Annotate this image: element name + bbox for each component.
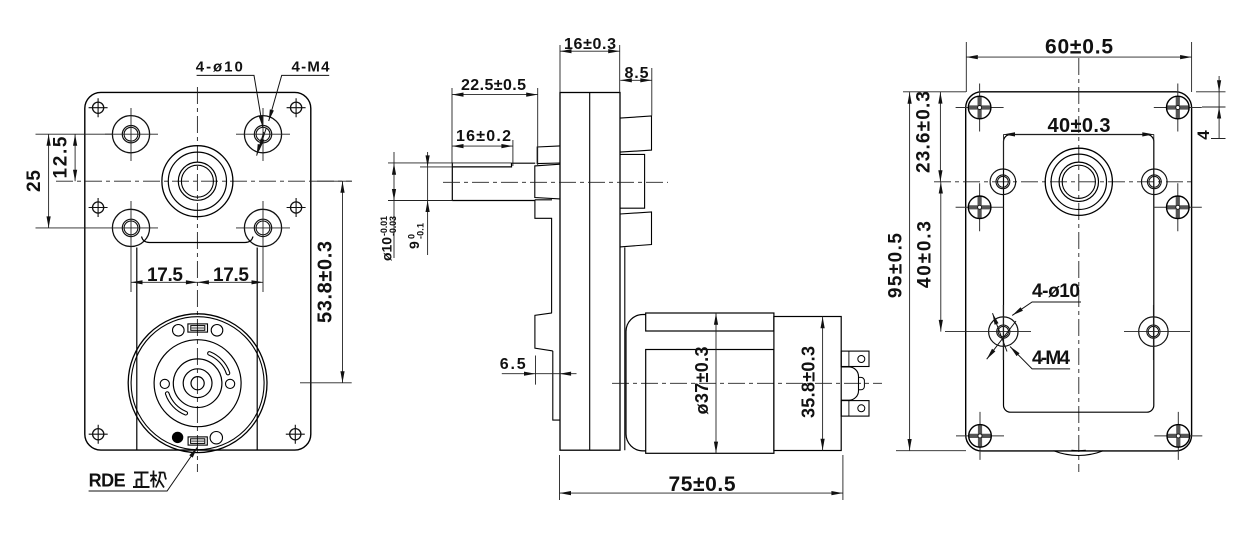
motor centerline (612, 382, 882, 384)
rear cover line (624, 247, 626, 450)
motor silhouette arcs below plate (1054, 451, 1104, 456)
svg-text:16±0.2: 16±0.2 (456, 128, 511, 145)
mid hole left (89, 198, 108, 217)
dim 60 extension lines (966, 42, 1191, 92)
svg-text:12.5: 12.5 (51, 136, 72, 178)
dim 23.6 line (939, 92, 941, 182)
dim 75 extension lines (560, 455, 843, 500)
front cover strip lower (553, 351, 560, 420)
motor rear section (774, 317, 841, 451)
svg-text:40±0.3: 40±0.3 (1048, 115, 1111, 137)
screw top-left (956, 84, 1004, 132)
vertical centerline (1078, 58, 1080, 472)
center output hub circles (162, 146, 233, 217)
vertical centerline (196, 87, 198, 472)
brush knob (859, 377, 865, 389)
dim 22.5 extension lines (452, 88, 538, 165)
motor arc slot top-right (209, 353, 228, 373)
dim 12.5 line (74, 134, 76, 181)
side hole right (1142, 169, 1168, 195)
front boss lower piece (535, 200, 552, 219)
rear boss piece B (620, 154, 645, 208)
corner hole bottom-right (286, 425, 305, 444)
screw bottom-right (1154, 412, 1202, 460)
dim 17.5 line (131, 281, 263, 283)
front shaft boss (535, 164, 560, 199)
dim o37 line (715, 313, 717, 453)
svg-text:9: 9 (406, 241, 422, 249)
dim 9 line (427, 152, 429, 255)
horizontal centerline (934, 181, 1192, 183)
inner housing rounded rect (1004, 135, 1154, 413)
center hub circles (1045, 148, 1112, 215)
motor can top band (646, 313, 774, 331)
svg-text:23.6±0.3: 23.6±0.3 (914, 91, 935, 173)
svg-text:-0.1: -0.1 (416, 223, 426, 239)
svg-text:4-M4: 4-M4 (1032, 348, 1070, 369)
svg-text:17.5: 17.5 (147, 265, 183, 286)
dim 40 left line (940, 182, 942, 332)
front mounting tab (535, 313, 553, 351)
dim 4 extension lines (1196, 92, 1226, 107)
front cover strip upper (551, 218, 553, 313)
front boss upper piece (537, 146, 560, 164)
dim 9 extension line (420, 166, 452, 168)
screw mid-right (1154, 183, 1202, 231)
motor bottom screw circle (210, 432, 222, 444)
motor vent hole right (226, 379, 235, 388)
dim 8.5 line (620, 79, 652, 81)
svg-text:RDE: RDE (89, 471, 126, 491)
motor front flange (626, 315, 646, 451)
lower hole right (1139, 317, 1168, 346)
svg-text:-0.03: -0.03 (388, 216, 398, 236)
big hole lower-right (244, 209, 281, 246)
dim 75 line (560, 492, 843, 494)
dim 16+-0.3 extension lines (560, 45, 620, 93)
dim 4 line outside arrows (1211, 76, 1226, 139)
svg-text:ø10: ø10 (379, 237, 395, 261)
dim 6.5 line with outside arrows (502, 373, 577, 375)
svg-text:22.5±0.5: 22.5±0.5 (461, 77, 526, 94)
dim 9 tolerance text (406, 223, 426, 249)
svg-text:6.5: 6.5 (500, 356, 526, 373)
svg-text:17.5: 17.5 (213, 265, 249, 286)
CJK hand-drawn: zheng (133, 473, 150, 488)
svg-text:75±0.5: 75±0.5 (669, 473, 736, 496)
dim 53.8 line (342, 181, 344, 383)
motor bottom black dot (polarity mark) (172, 432, 183, 443)
output shaft (452, 162, 535, 200)
svg-text:4-ø10: 4-ø10 (1032, 281, 1080, 302)
dim 22.5 line (452, 94, 538, 96)
front mounting plate outline (85, 92, 311, 450)
dim o10 line (393, 152, 395, 258)
corner hole bottom-left (89, 425, 108, 444)
corner hole top-left (89, 98, 108, 117)
dim 95 extension line bottom (896, 450, 966, 452)
screw top-right (1154, 84, 1202, 132)
back plate outline (966, 92, 1192, 451)
corner hole top-right (287, 98, 306, 117)
side hole left (990, 169, 1016, 195)
svg-text:95±0.5: 95±0.5 (886, 233, 907, 298)
terminal tab top (841, 351, 869, 366)
RDE leader line (89, 447, 198, 491)
svg-text:4-ø10: 4-ø10 (196, 59, 243, 76)
terminal tab bottom (841, 401, 869, 417)
dim 17.5 extension lines (131, 247, 263, 292)
svg-text:4: 4 (1194, 130, 1213, 140)
dim o10 tolerance text (379, 216, 399, 261)
housing profile left vertical (136, 248, 138, 451)
svg-text:35.8±0.3: 35.8±0.3 (799, 346, 819, 418)
dim 53.8 extension lines (300, 181, 352, 383)
dim 60 line (966, 56, 1191, 58)
dim 23.6 extension line top (903, 91, 966, 93)
svg-text:16±0.3: 16±0.3 (564, 36, 616, 53)
screw bottom-left (956, 412, 1004, 460)
svg-text:53.8±0.3: 53.8±0.3 (315, 241, 337, 323)
big hole upper-right (244, 116, 281, 153)
horizontal centerline (56, 180, 352, 182)
dim 95 line (909, 92, 911, 451)
motor can body (646, 350, 774, 454)
shaft centerline (443, 181, 668, 183)
housing profile right vertical (256, 248, 258, 451)
svg-text:8.5: 8.5 (625, 65, 649, 82)
svg-text:40±0.3: 40±0.3 (915, 221, 936, 288)
dim 6.5 tick (535, 356, 537, 385)
motor end cap outer circles (128, 314, 267, 453)
svg-text:25: 25 (24, 170, 45, 192)
svg-text:60±0.5: 60±0.5 (1045, 36, 1113, 59)
svg-text:ø37±0.3: ø37±0.3 (692, 347, 712, 415)
dim 25 extension lines (36, 134, 113, 228)
rear boss piece C (620, 212, 652, 247)
rear boss piece A (620, 116, 652, 152)
big hole lower-left (112, 209, 149, 246)
dim 8.5 extension line (651, 68, 653, 116)
svg-text:4-M4: 4-M4 (292, 59, 331, 76)
housing profile bridge between lower holes (142, 237, 254, 243)
mid hole right (287, 198, 306, 217)
screw mid-left (956, 183, 1004, 231)
gearbox body rectangle (560, 93, 620, 451)
dim 35.8 line (822, 317, 824, 451)
motor top screw circles (173, 325, 185, 337)
dim 16+-0.3 line (560, 50, 620, 52)
gearbox parting line (589, 93, 591, 451)
dim 40 top line (1004, 133, 1154, 135)
dim 25 line (48, 134, 50, 228)
motor top terminal block (188, 324, 208, 332)
motor vent hole left (160, 379, 169, 388)
dim o10 extension lines (388, 163, 512, 201)
CJK hand-drawn: ji (150, 471, 166, 488)
dim 16+-0.2 line (452, 140, 513, 166)
motor arc slot bottom-left (167, 394, 186, 414)
brush holder boss (841, 367, 858, 400)
lower hole left (989, 317, 1018, 346)
big hole upper-left (112, 116, 149, 153)
motor bottom terminal block (188, 437, 207, 445)
